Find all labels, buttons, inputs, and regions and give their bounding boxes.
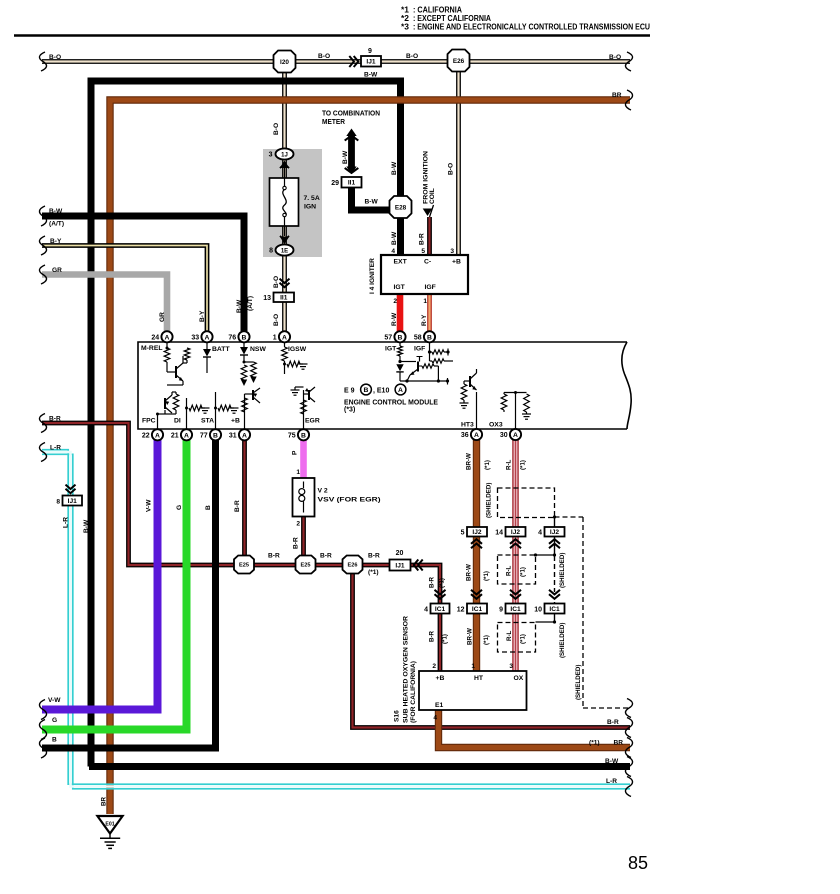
svg-text:B-R: B-R: [49, 416, 61, 423]
svg-text:DI: DI: [174, 418, 181, 425]
svg-text:5: 5: [461, 530, 465, 537]
svg-text:BR: BR: [101, 797, 108, 806]
svg-text:I 4 IGNITER: I 4 IGNITER: [369, 258, 376, 294]
svg-text:B-O: B-O: [49, 54, 61, 61]
svg-text:A: A: [155, 432, 160, 439]
svg-text:EGR: EGR: [305, 418, 320, 425]
svg-text:ENGINE CONTROL MODULE: ENGINE CONTROL MODULE: [344, 398, 438, 407]
svg-text:4: 4: [538, 530, 542, 537]
svg-text:(A/T): (A/T): [247, 296, 254, 311]
svg-text:(*3): (*3): [344, 407, 355, 414]
svg-text:FPC: FPC: [142, 418, 156, 425]
svg-text:(*1): (*1): [439, 578, 446, 588]
svg-text:STA: STA: [201, 418, 214, 425]
svg-text:B-R: B-R: [320, 553, 332, 560]
svg-text:METER: METER: [322, 117, 346, 126]
svg-text:57: 57: [384, 334, 392, 341]
svg-text:B: B: [52, 737, 57, 744]
svg-text:HT: HT: [474, 675, 484, 682]
svg-text:22: 22: [142, 432, 150, 439]
svg-text:36: 36: [461, 432, 469, 439]
svg-text:2: 2: [296, 521, 300, 528]
svg-text:A: A: [474, 432, 479, 439]
svg-text:B: B: [427, 334, 432, 341]
svg-text:A: A: [398, 387, 403, 394]
svg-text:BR-W: BR-W: [466, 564, 473, 581]
svg-text:IC1: IC1: [472, 606, 483, 613]
svg-text:(*1): (*1): [368, 569, 379, 576]
svg-text:COIL: COIL: [429, 188, 436, 204]
svg-text:E 9: E 9: [344, 388, 355, 395]
svg-text:IGT: IGT: [385, 346, 397, 353]
svg-text:P: P: [292, 450, 299, 455]
svg-text:(SHIELDED): (SHIELDED): [559, 553, 566, 588]
svg-text:B-O: B-O: [273, 276, 280, 288]
svg-text:13: 13: [263, 295, 271, 302]
svg-text:A: A: [282, 334, 287, 341]
svg-text:14: 14: [495, 530, 503, 537]
svg-text:B-O: B-O: [448, 163, 455, 175]
svg-text:IJ1: IJ1: [366, 59, 375, 66]
svg-text:1J: 1J: [281, 152, 288, 158]
svg-text:B-R: B-R: [234, 500, 241, 512]
svg-text:I20: I20: [280, 59, 289, 66]
svg-text:IJ1: IJ1: [395, 562, 404, 569]
svg-text:9: 9: [499, 607, 503, 614]
svg-text:R-W: R-W: [391, 312, 398, 326]
svg-text:24: 24: [151, 334, 159, 341]
svg-text:B: B: [364, 387, 369, 394]
svg-text:85: 85: [628, 853, 648, 873]
svg-text:1E: 1E: [281, 248, 288, 254]
svg-text:B-R: B-R: [268, 553, 280, 560]
svg-text:B-O: B-O: [318, 53, 330, 60]
svg-text:B-W: B-W: [365, 199, 379, 206]
svg-text:OX3: OX3: [489, 422, 503, 429]
svg-text:C-: C-: [424, 259, 431, 266]
svg-text:30: 30: [500, 432, 508, 439]
svg-text:GR: GR: [52, 267, 62, 274]
svg-text:(*1): (*1): [520, 634, 527, 644]
svg-text:BR: BR: [614, 740, 624, 747]
svg-text:B-R: B-R: [429, 576, 436, 588]
svg-text:1: 1: [273, 334, 277, 341]
svg-text:(FOR CALIFORNIA): (FOR CALIFORNIA): [410, 661, 417, 723]
svg-text:L-R: L-R: [50, 445, 61, 452]
svg-text:IC1: IC1: [549, 606, 560, 613]
svg-text:B: B: [398, 334, 403, 341]
svg-text:A: A: [513, 432, 518, 439]
svg-text:B-O: B-O: [273, 123, 280, 135]
svg-text:B-R: B-R: [368, 553, 380, 560]
svg-text:76: 76: [228, 334, 236, 341]
svg-text:B-W: B-W: [83, 519, 90, 533]
svg-text:II1: II1: [280, 295, 288, 302]
svg-text:1: 1: [423, 298, 427, 305]
svg-text:E1: E1: [435, 702, 444, 709]
svg-text:B-W: B-W: [605, 758, 619, 765]
svg-text:B-R: B-R: [429, 630, 436, 642]
svg-text:B-W: B-W: [49, 208, 63, 215]
svg-text:58: 58: [414, 334, 422, 341]
svg-text:V-W: V-W: [146, 499, 153, 512]
svg-text:IJ1: IJ1: [68, 498, 77, 505]
svg-text:A: A: [205, 334, 210, 341]
svg-text:33: 33: [191, 334, 199, 341]
svg-text:B: B: [242, 334, 247, 341]
svg-text:BR-W: BR-W: [466, 453, 473, 470]
svg-text:E01: E01: [105, 822, 114, 828]
svg-text:R-L: R-L: [506, 459, 513, 470]
svg-text:3: 3: [269, 152, 273, 159]
svg-text:B-W: B-W: [342, 150, 349, 164]
svg-text:, E10: , E10: [373, 388, 389, 395]
svg-text:E25: E25: [301, 563, 311, 569]
svg-text:4: 4: [424, 607, 428, 614]
svg-text:77: 77: [200, 432, 208, 439]
svg-text:IJ2: IJ2: [511, 529, 520, 536]
svg-text:BR-W: BR-W: [467, 628, 474, 645]
svg-text:SUB HEATED OXYGEN SENSOR: SUB HEATED OXYGEN SENSOR: [403, 616, 410, 723]
svg-text:VSV (FOR EGR): VSV (FOR EGR): [318, 497, 381, 504]
svg-text:B: B: [205, 505, 212, 510]
svg-text:(*1): (*1): [520, 460, 527, 470]
svg-text:3: 3: [450, 248, 454, 255]
svg-text:IJ2: IJ2: [472, 529, 481, 536]
svg-text:BATT: BATT: [212, 346, 230, 353]
svg-text:HT3: HT3: [461, 422, 474, 429]
svg-text:E26: E26: [453, 58, 465, 65]
svg-text:*3: *3: [401, 23, 410, 32]
svg-text:8: 8: [269, 248, 273, 255]
svg-text:+B: +B: [436, 675, 445, 682]
svg-text:(SHIELDED): (SHIELDED): [559, 623, 566, 658]
svg-text:IGF: IGF: [414, 346, 425, 353]
svg-text:(*1): (*1): [483, 635, 490, 645]
svg-text:(SHIELDED): (SHIELDED): [486, 483, 493, 518]
svg-text:A: A: [184, 432, 189, 439]
svg-text:(*1): (*1): [483, 571, 490, 581]
svg-text:II1: II1: [348, 180, 356, 187]
svg-text:A: A: [242, 432, 247, 439]
svg-text:2: 2: [393, 298, 397, 305]
svg-text:V-W: V-W: [48, 697, 61, 704]
svg-text:+B: +B: [452, 259, 461, 266]
svg-text:IGT: IGT: [394, 284, 406, 291]
svg-text:8: 8: [56, 499, 60, 506]
svg-text:B-O: B-O: [273, 314, 280, 326]
svg-text:B-W: B-W: [236, 299, 243, 313]
svg-text:R-L: R-L: [506, 565, 513, 576]
svg-text:B-W: B-W: [364, 72, 378, 79]
svg-text:4: 4: [391, 248, 395, 255]
svg-text:IJ2: IJ2: [550, 529, 559, 536]
svg-text:V 2: V 2: [318, 488, 328, 495]
svg-text:12: 12: [457, 607, 465, 614]
svg-text:EXT: EXT: [394, 259, 408, 266]
svg-text:E25: E25: [239, 563, 249, 569]
svg-text:B-R: B-R: [607, 719, 619, 726]
svg-text:G: G: [52, 717, 57, 724]
svg-text:(SHIELDED): (SHIELDED): [575, 665, 582, 700]
svg-text:29: 29: [331, 180, 339, 187]
svg-text:E26: E26: [348, 563, 358, 569]
svg-text:B: B: [301, 432, 306, 439]
svg-text:20: 20: [396, 550, 404, 557]
svg-text:75: 75: [288, 432, 296, 439]
svg-text:B-R: B-R: [419, 233, 426, 245]
svg-text:S16: S16: [394, 710, 401, 722]
svg-text:1: 1: [296, 469, 300, 476]
svg-text:9: 9: [368, 48, 372, 55]
svg-text:31: 31: [229, 432, 237, 439]
svg-text:10: 10: [534, 607, 542, 614]
svg-text:2: 2: [432, 663, 436, 670]
svg-text:R-Y: R-Y: [421, 314, 428, 326]
svg-text:5: 5: [421, 248, 425, 255]
svg-text:IGF: IGF: [425, 284, 436, 291]
svg-text:(*1): (*1): [442, 634, 449, 644]
svg-text:4: 4: [433, 715, 437, 722]
svg-text:L-R: L-R: [63, 517, 70, 528]
svg-text:(*1): (*1): [520, 567, 527, 577]
svg-text:B-O: B-O: [406, 53, 418, 60]
svg-text:B-O: B-O: [609, 54, 621, 61]
svg-text:3: 3: [509, 663, 513, 670]
svg-text:IGN: IGN: [304, 204, 316, 211]
svg-text:B-Y: B-Y: [50, 238, 62, 245]
svg-text:B-R: B-R: [293, 537, 300, 549]
svg-text:(A/T): (A/T): [49, 221, 64, 228]
svg-text:NSW: NSW: [250, 346, 266, 353]
svg-text:+B: +B: [231, 418, 240, 425]
svg-text:OX: OX: [514, 675, 524, 682]
svg-text:B-W: B-W: [391, 161, 398, 175]
svg-text:(*1): (*1): [484, 460, 491, 470]
svg-text:L-R: L-R: [606, 778, 617, 785]
svg-text:IC1: IC1: [435, 606, 446, 613]
svg-text:G: G: [176, 505, 183, 510]
svg-text:E28: E28: [395, 204, 407, 211]
svg-text:1: 1: [471, 663, 475, 670]
svg-text:B: B: [213, 432, 218, 439]
svg-text:R-L: R-L: [506, 630, 513, 641]
svg-text:21: 21: [171, 432, 179, 439]
svg-text:(*1): (*1): [589, 740, 600, 747]
svg-text:B-W: B-W: [391, 231, 398, 245]
svg-text:BR: BR: [612, 92, 622, 99]
svg-text:B-Y: B-Y: [199, 310, 206, 322]
svg-text:M-REL: M-REL: [141, 345, 163, 352]
svg-text:IC1: IC1: [510, 606, 521, 613]
svg-text:7. 5A: 7. 5A: [304, 195, 320, 202]
svg-text:IGSW: IGSW: [288, 346, 307, 353]
svg-text:A: A: [165, 334, 170, 341]
svg-text:GR: GR: [159, 312, 166, 322]
svg-text:: ENGINE AND ELECTRONICALLY CO: : ENGINE AND ELECTRONICALLY CONTROLLED T…: [413, 23, 650, 32]
